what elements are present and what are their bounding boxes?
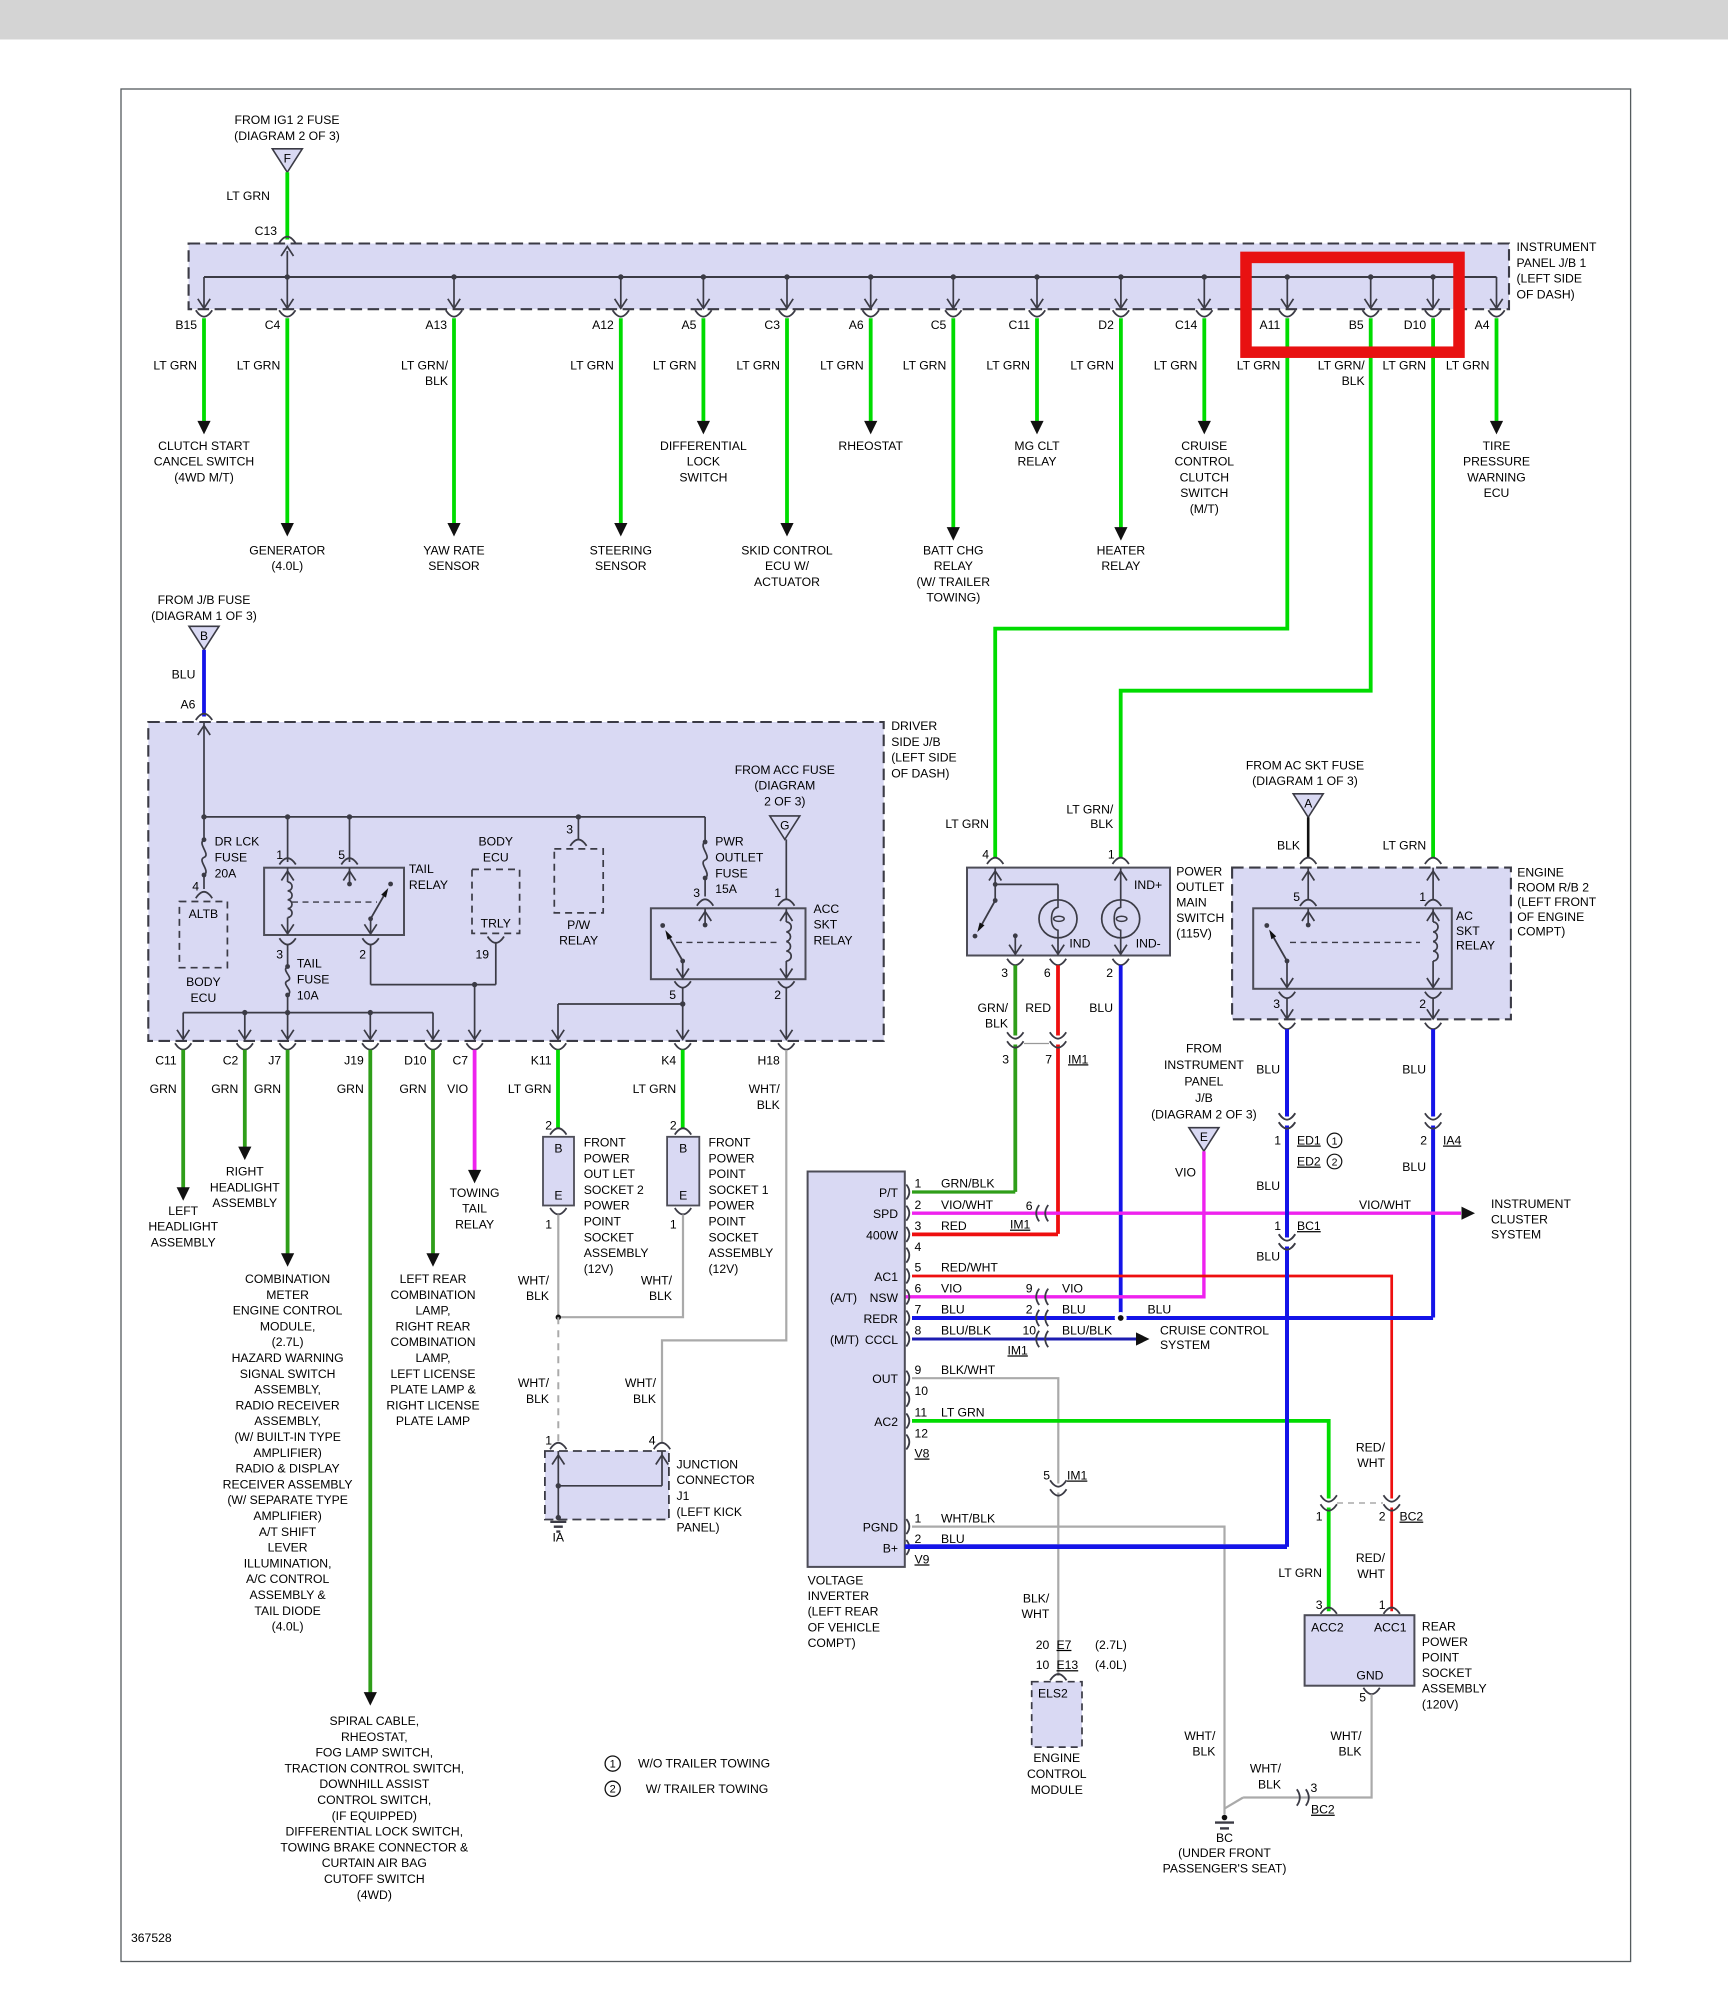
connector arc J1 pin 4 xyxy=(654,1443,670,1449)
svg-text:ASSEMBLY: ASSEMBLY xyxy=(1422,1682,1487,1696)
svg-text:DIFFERENTIAL LOCK SWITCH,: DIFFERENTIAL LOCK SWITCH, xyxy=(285,1825,463,1839)
svg-text:1: 1 xyxy=(1316,1510,1323,1524)
inverter pin arcs PGND B+ xyxy=(906,1519,909,1534)
svg-text:6: 6 xyxy=(915,1282,922,1296)
svg-text:FUSE: FUSE xyxy=(297,973,330,987)
J/B bus junction dots xyxy=(201,814,206,819)
svg-text:B: B xyxy=(679,1141,687,1155)
svg-text:IM1: IM1 xyxy=(1068,1052,1089,1066)
svg-text:D10: D10 xyxy=(404,1054,427,1068)
svg-text:MODULE,: MODULE, xyxy=(260,1319,316,1333)
svg-text:WHT/: WHT/ xyxy=(749,1082,781,1096)
svg-text:(LEFT KICK: (LEFT KICK xyxy=(677,1505,742,1519)
svg-text:BC1: BC1 xyxy=(1297,1219,1321,1233)
svg-text:W/ TRAILER TOWING: W/ TRAILER TOWING xyxy=(646,1782,769,1796)
svg-text:BODY: BODY xyxy=(186,975,221,989)
svg-text:RELAY: RELAY xyxy=(409,878,448,892)
svg-text:IA4: IA4 xyxy=(1443,1134,1462,1148)
svg-text:(LEFT SIDE: (LEFT SIDE xyxy=(1517,272,1582,286)
P/W relay box xyxy=(554,849,603,913)
BC2 link dashed xyxy=(1337,1502,1383,1504)
J/B internal bus wire xyxy=(204,816,705,818)
wire A6 into J/B xyxy=(203,722,205,817)
connector arc tail relay pin 5 xyxy=(349,817,351,862)
tail relay switch xyxy=(388,882,393,887)
svg-text:PGND: PGND xyxy=(863,1521,898,1535)
body ECU TRLY box xyxy=(472,869,520,933)
wire WHT/BLK socket1 to junction xyxy=(560,1215,683,1318)
svg-text:B: B xyxy=(554,1141,562,1155)
svg-text:1: 1 xyxy=(1274,1219,1281,1233)
svg-text:BLK: BLK xyxy=(425,374,448,388)
svg-text:ASSEMBLY &: ASSEMBLY & xyxy=(250,1588,326,1602)
svg-text:SIDE J/B: SIDE J/B xyxy=(891,735,940,749)
J1 internal wires xyxy=(557,1451,559,1518)
svg-text:RELAY: RELAY xyxy=(1456,939,1495,953)
wire VIO pin 6 NSW xyxy=(1036,1289,1039,1305)
ACC SKT relay dashed link xyxy=(676,941,777,943)
connector arc socket 1 top xyxy=(675,1128,691,1134)
svg-text:20: 20 xyxy=(1036,1638,1050,1652)
wire LT GRN to Skid Control xyxy=(785,318,789,524)
svg-text:GENERATOR: GENERATOR xyxy=(249,543,325,557)
svg-text:400W: 400W xyxy=(866,1228,898,1242)
svg-text:(LEFT FRONT: (LEFT FRONT xyxy=(1517,895,1597,909)
wire GRN J7 to combination meter group xyxy=(286,1050,290,1255)
svg-text:METER: METER xyxy=(266,1288,309,1302)
svg-text:1: 1 xyxy=(1108,848,1115,862)
svg-text:15A: 15A xyxy=(715,882,738,896)
svg-text:RECEIVER ASSEMBLY: RECEIVER ASSEMBLY xyxy=(223,1477,353,1491)
svg-text:OUT: OUT xyxy=(872,1372,898,1386)
svg-text:BLU: BLU xyxy=(1402,1063,1426,1077)
svg-text:ALTB: ALTB xyxy=(189,907,219,921)
svg-text:LT GRN/: LT GRN/ xyxy=(1066,803,1114,817)
svg-text:BLK: BLK xyxy=(1090,817,1113,831)
svg-text:LT GRN: LT GRN xyxy=(986,358,1030,372)
svg-text:AC1: AC1 xyxy=(874,1270,898,1284)
svg-text:F: F xyxy=(284,151,291,165)
svg-text:4: 4 xyxy=(649,1434,656,1448)
svg-text:GRN/BLK: GRN/BLK xyxy=(941,1177,995,1191)
svg-text:WHT: WHT xyxy=(1357,1456,1385,1470)
svg-text:C5: C5 xyxy=(931,318,947,332)
svg-text:ENGINE: ENGINE xyxy=(1517,866,1564,880)
svg-text:8: 8 xyxy=(915,1324,922,1338)
svg-text:RELAY: RELAY xyxy=(559,934,598,948)
svg-text:MODULE: MODULE xyxy=(1031,1783,1083,1797)
svg-text:LT GRN: LT GRN xyxy=(237,358,281,372)
svg-text:RIGHT: RIGHT xyxy=(226,1165,264,1179)
svg-text:NSW: NSW xyxy=(870,1291,899,1305)
svg-text:A12: A12 xyxy=(592,318,614,332)
svg-text:PWR: PWR xyxy=(715,835,744,849)
svg-text:MG CLT: MG CLT xyxy=(1014,439,1060,453)
wire GRN/BLK pin 1 P/T xyxy=(912,1190,1015,1193)
connector arc socket 1 bottom xyxy=(675,1208,691,1214)
svg-text:1: 1 xyxy=(774,886,781,900)
svg-text:LT GRN: LT GRN xyxy=(1278,1566,1322,1580)
rear power point socket box xyxy=(1305,1615,1415,1686)
svg-text:GRN: GRN xyxy=(150,1082,177,1096)
svg-text:367528: 367528 xyxy=(131,1931,172,1945)
svg-text:3: 3 xyxy=(1001,966,1008,980)
AC SKT relay switch xyxy=(1264,923,1269,928)
wire WHT/BLK GND to BC ground xyxy=(1243,1694,1372,1797)
svg-text:(M/T): (M/T) xyxy=(830,1333,859,1347)
svg-text:FROM: FROM xyxy=(1186,1041,1222,1055)
svg-text:A11: A11 xyxy=(1260,318,1281,332)
svg-text:COMBINATION: COMBINATION xyxy=(390,1288,475,1302)
svg-text:POWER: POWER xyxy=(709,1199,755,1213)
svg-text:(12V): (12V) xyxy=(709,1262,739,1276)
connector arc RB2 pin top xyxy=(1300,858,1316,864)
svg-text:ED1: ED1 xyxy=(1297,1134,1321,1148)
wire RED from pin 6 xyxy=(1056,965,1060,1034)
svg-text:SKT: SKT xyxy=(1456,924,1480,938)
svg-text:POINT: POINT xyxy=(1422,1651,1460,1665)
switch arm xyxy=(982,901,995,924)
svg-text:(4WD): (4WD) xyxy=(357,1888,392,1902)
svg-text:ASSEMBLY: ASSEMBLY xyxy=(151,1236,216,1250)
wire LT GRN/BLK B5 to power outlet main switch pin 1 xyxy=(1121,318,1371,857)
svg-text:RED/: RED/ xyxy=(1356,1440,1386,1454)
svg-text:CLUTCH: CLUTCH xyxy=(1180,470,1229,484)
svg-text:ASSEMBLY: ASSEMBLY xyxy=(212,1196,277,1210)
connector arcs rear socket top xyxy=(1321,1608,1337,1614)
svg-text:BLK/: BLK/ xyxy=(1023,1591,1050,1605)
tail relay dashed link xyxy=(292,901,377,903)
connector arc ACC relay pin 1 xyxy=(778,899,794,905)
svg-text:HEATER: HEATER xyxy=(1097,543,1146,557)
svg-text:(115V): (115V) xyxy=(1176,926,1212,940)
svg-text:D10: D10 xyxy=(1404,318,1427,332)
svg-text:RHEOSTAT: RHEOSTAT xyxy=(838,439,903,453)
svg-text:ELS2: ELS2 xyxy=(1038,1686,1068,1700)
ELS2 box xyxy=(1032,1682,1082,1747)
svg-text:SKT: SKT xyxy=(814,918,838,932)
bus wire horizontal xyxy=(204,276,1497,278)
lamp IND- column xyxy=(1120,868,1122,900)
svg-text:TRACTION CONTROL SWITCH,: TRACTION CONTROL SWITCH, xyxy=(284,1761,464,1775)
inline connector IM1 red xyxy=(1056,1035,1060,1234)
svg-text:RELAY: RELAY xyxy=(934,559,973,573)
svg-text:E: E xyxy=(679,1189,687,1203)
svg-text:CCCL: CCCL xyxy=(865,1333,898,1347)
svg-text:POWER: POWER xyxy=(709,1151,755,1165)
svg-text:P/W: P/W xyxy=(567,918,591,932)
svg-text:BLK: BLK xyxy=(1342,374,1365,388)
svg-text:J7: J7 xyxy=(268,1054,281,1068)
svg-text:LAMP,: LAMP, xyxy=(415,1304,450,1318)
svg-text:3: 3 xyxy=(276,948,283,962)
svg-text:(DIAGRAM 2 OF 3): (DIAGRAM 2 OF 3) xyxy=(234,129,340,143)
svg-text:PLATE LAMP: PLATE LAMP xyxy=(396,1414,470,1428)
svg-text:INSTRUMENT: INSTRUMENT xyxy=(1517,240,1597,254)
svg-text:11: 11 xyxy=(915,1406,928,1420)
svg-text:FRONT: FRONT xyxy=(709,1136,752,1150)
svg-text:CONTROL: CONTROL xyxy=(1027,1767,1087,1781)
svg-text:10: 10 xyxy=(1022,1324,1036,1338)
svg-text:(4.0L): (4.0L) xyxy=(271,559,303,573)
svg-text:2: 2 xyxy=(670,1118,677,1132)
arrow to cruise control system xyxy=(1136,1332,1150,1345)
svg-text:J19: J19 xyxy=(344,1054,364,1068)
inline connector BC1 redraw xyxy=(1285,1238,1290,1247)
connector arc TRLY pin 19 xyxy=(488,937,504,943)
svg-text:LT GRN: LT GRN xyxy=(226,189,270,203)
svg-text:2: 2 xyxy=(1420,1134,1427,1148)
wire BLU pin 7 REDR xyxy=(912,1316,1433,1320)
svg-text:1: 1 xyxy=(915,1177,922,1191)
svg-text:COMPT): COMPT) xyxy=(808,1636,856,1650)
connector arcs AC SKT relay bottom xyxy=(1279,992,1295,998)
svg-text:AMPLIFIER): AMPLIFIER) xyxy=(253,1446,321,1460)
svg-text:POINT: POINT xyxy=(709,1215,747,1229)
svg-text:(12V): (12V) xyxy=(584,1262,614,1276)
bus connector cups xyxy=(196,310,212,316)
svg-text:IND+: IND+ xyxy=(1134,878,1162,892)
inverter pin arcs 1-12 xyxy=(906,1185,909,1200)
svg-text:POWER: POWER xyxy=(1422,1635,1468,1649)
svg-text:GND: GND xyxy=(1356,1668,1383,1682)
svg-text:TAIL: TAIL xyxy=(297,957,322,971)
svg-text:OUTLET: OUTLET xyxy=(1176,880,1225,894)
connector arcs AC SKT relay top xyxy=(1300,900,1316,906)
bus junction dots xyxy=(285,274,290,279)
svg-text:SOCKET 2: SOCKET 2 xyxy=(584,1183,644,1197)
svg-text:OUTLET: OUTLET xyxy=(715,851,764,865)
connector arc ACC relay pin 3 xyxy=(697,899,713,905)
svg-text:2: 2 xyxy=(1379,1510,1386,1524)
svg-text:WHT: WHT xyxy=(1357,1567,1385,1581)
RB2 bottom exit wires xyxy=(1286,998,1288,1017)
svg-text:RELAY: RELAY xyxy=(814,934,853,948)
svg-text:BLU: BLU xyxy=(1256,1063,1280,1077)
svg-text:SOCKET: SOCKET xyxy=(1422,1666,1473,1680)
svg-text:J/B: J/B xyxy=(1195,1091,1213,1105)
svg-text:4: 4 xyxy=(915,1240,922,1254)
wire WHT/BLK pin PGND xyxy=(912,1527,1225,1815)
svg-text:E: E xyxy=(554,1189,562,1203)
svg-text:J1: J1 xyxy=(677,1489,690,1503)
svg-text:REAR: REAR xyxy=(1422,1619,1456,1633)
svg-text:HEADLIGHT: HEADLIGHT xyxy=(210,1180,280,1194)
svg-text:BATT CHG: BATT CHG xyxy=(923,543,984,557)
front power outlet socket 2 box xyxy=(543,1137,574,1206)
svg-text:SPIRAL CABLE,: SPIRAL CABLE, xyxy=(329,1714,419,1728)
svg-text:FROM ACC FUSE: FROM ACC FUSE xyxy=(735,763,835,777)
wire RED/WHT pin 5 AC1 xyxy=(912,1276,1392,1611)
wire LT GRN to Tire xyxy=(1495,318,1499,422)
svg-text:SYSTEM: SYSTEM xyxy=(1491,1227,1541,1241)
connector arc C13 xyxy=(279,237,295,243)
svg-text:10: 10 xyxy=(1036,1658,1050,1672)
svg-text:E7: E7 xyxy=(1057,1638,1072,1652)
svg-text:BLU: BLU xyxy=(1062,1303,1086,1317)
svg-text:5: 5 xyxy=(1043,1469,1050,1483)
svg-text:E13: E13 xyxy=(1057,1658,1079,1672)
connector arc P/W pin 3 xyxy=(570,840,586,846)
svg-text:DIFFERENTIAL: DIFFERENTIAL xyxy=(660,439,747,453)
P/W relay pin 3 wire xyxy=(577,817,579,839)
svg-text:2: 2 xyxy=(610,1784,616,1796)
svg-text:FROM AC SKT FUSE: FROM AC SKT FUSE xyxy=(1246,758,1364,772)
svg-text:ACC: ACC xyxy=(814,902,840,916)
svg-text:ENGINE CONTROL: ENGINE CONTROL xyxy=(233,1304,343,1318)
svg-text:STEERING: STEERING xyxy=(590,543,652,557)
svg-text:FROM J/B FUSE: FROM J/B FUSE xyxy=(158,593,251,607)
svg-text:LT GRN: LT GRN xyxy=(945,817,989,831)
svg-text:AC2: AC2 xyxy=(874,1415,898,1429)
svg-text:CRUISE CONTROL: CRUISE CONTROL xyxy=(1160,1324,1269,1338)
svg-text:6: 6 xyxy=(1026,1199,1033,1213)
svg-text:VIO: VIO xyxy=(1062,1282,1083,1296)
power outlet main switch box xyxy=(967,868,1170,956)
svg-text:PANEL J/B 1: PANEL J/B 1 xyxy=(1517,256,1587,270)
svg-text:BLU: BLU xyxy=(941,1303,965,1317)
voltage inverter box xyxy=(808,1172,905,1567)
svg-text:A4: A4 xyxy=(1475,318,1490,332)
switch pin 3 stub xyxy=(1013,933,1018,938)
svg-text:(M/T): (M/T) xyxy=(1190,502,1219,516)
svg-text:TAIL DIODE: TAIL DIODE xyxy=(254,1604,320,1618)
wire LT GRN to Yaw Rate xyxy=(452,318,456,524)
tail relay box xyxy=(264,868,404,935)
bottom bus drop arrows xyxy=(182,1013,184,1039)
svg-text:5: 5 xyxy=(669,988,676,1002)
wire LT GRN D10 to engine room R/B 2 pin 1 xyxy=(1431,318,1435,857)
svg-text:(LEFT REAR: (LEFT REAR xyxy=(808,1605,879,1619)
svg-text:POINT: POINT xyxy=(709,1167,747,1181)
svg-text:BLK/WHT: BLK/WHT xyxy=(941,1363,996,1377)
svg-text:1: 1 xyxy=(1274,1134,1281,1148)
ground IA xyxy=(550,1521,566,1523)
svg-text:V8: V8 xyxy=(915,1447,930,1461)
svg-text:VIO: VIO xyxy=(1175,1166,1196,1180)
wire LT GRN to Clutch Start xyxy=(202,318,206,422)
svg-text:(DIAGRAM: (DIAGRAM xyxy=(754,779,815,793)
svg-text:OUT LET: OUT LET xyxy=(584,1167,636,1181)
svg-text:LEVER: LEVER xyxy=(268,1541,308,1555)
svg-text:W/O TRAILER TOWING: W/O TRAILER TOWING xyxy=(638,1757,770,1771)
svg-text:FROM IG1 2 FUSE: FROM IG1 2 FUSE xyxy=(235,113,340,127)
svg-text:SWITCH: SWITCH xyxy=(1180,486,1228,500)
svg-text:6: 6 xyxy=(1044,966,1051,980)
connector arc A6 xyxy=(196,714,212,720)
svg-text:1: 1 xyxy=(1419,890,1426,904)
svg-text:12: 12 xyxy=(915,1427,929,1441)
svg-text:LT GRN: LT GRN xyxy=(1237,358,1281,372)
svg-text:(2.7L): (2.7L) xyxy=(1095,1638,1127,1652)
svg-text:A5: A5 xyxy=(681,318,696,332)
svg-text:A13: A13 xyxy=(425,318,447,332)
svg-text:A: A xyxy=(1304,796,1312,810)
svg-text:LEFT: LEFT xyxy=(168,1204,198,1218)
legend circle 1 xyxy=(605,1756,620,1771)
svg-text:GRN/: GRN/ xyxy=(978,1001,1009,1015)
svg-text:REDR: REDR xyxy=(863,1312,898,1326)
svg-text:CRUISE: CRUISE xyxy=(1181,439,1227,453)
BC2 dashed pair on RED/WHT xyxy=(1389,1499,1394,1508)
svg-text:(120V): (120V) xyxy=(1422,1697,1459,1711)
svg-text:BC2: BC2 xyxy=(1400,1510,1424,1524)
wire LT GRN K11 to front power outlet socket 2 xyxy=(556,1050,560,1129)
svg-text:ED2: ED2 xyxy=(1297,1155,1321,1169)
svg-text:H18: H18 xyxy=(757,1054,780,1068)
svg-text:FUSE: FUSE xyxy=(715,866,748,880)
wire LT GRN K4 to front power point socket 1 xyxy=(681,1050,685,1129)
RB2 pin 5 wire xyxy=(1307,868,1309,899)
svg-text:DRIVER: DRIVER xyxy=(891,719,937,733)
svg-text:VIO/WHT: VIO/WHT xyxy=(941,1198,994,1212)
wire WHT/BLK socket2 down xyxy=(557,1215,559,1318)
svg-text:AMPLIFIER): AMPLIFIER) xyxy=(253,1509,321,1523)
inline connector ED1 on left BLU xyxy=(1285,1117,1290,1126)
svg-text:LT GRN: LT GRN xyxy=(570,358,614,372)
svg-text:BLK: BLK xyxy=(526,1289,549,1303)
svg-text:CLUSTER: CLUSTER xyxy=(1491,1212,1548,1226)
svg-text:RELAY: RELAY xyxy=(455,1218,494,1232)
svg-text:GRN: GRN xyxy=(211,1082,238,1096)
svg-text:(W/ TRAILER: (W/ TRAILER xyxy=(917,575,991,589)
ACC SKT relay box xyxy=(651,908,806,979)
svg-text:2: 2 xyxy=(545,1118,552,1132)
svg-text:YAW RATE: YAW RATE xyxy=(423,543,484,557)
svg-text:ECU: ECU xyxy=(191,991,217,1005)
svg-text:3: 3 xyxy=(1311,1781,1318,1795)
ACC SKT relay pin 3 stub xyxy=(704,908,706,925)
svg-text:HAZARD WARNING: HAZARD WARNING xyxy=(232,1351,344,1365)
svg-text:BLU/BLK: BLU/BLK xyxy=(1062,1324,1112,1338)
wire LT GRN to Mg Clt xyxy=(1035,318,1039,422)
svg-text:5: 5 xyxy=(915,1261,922,1275)
wire GRN J19 to spiral cable group xyxy=(368,1050,372,1694)
svg-text:1: 1 xyxy=(276,848,283,862)
svg-text:ROOM R/B 2: ROOM R/B 2 xyxy=(1517,880,1589,894)
svg-text:RHEOSTAT,: RHEOSTAT, xyxy=(341,1730,408,1744)
inline connector IM1 green xyxy=(1013,1035,1017,1192)
svg-text:BLK: BLK xyxy=(526,1392,549,1406)
svg-text:2: 2 xyxy=(915,1532,922,1546)
svg-text:RIGHT REAR: RIGHT REAR xyxy=(396,1319,471,1333)
svg-text:WHT/BLK: WHT/BLK xyxy=(941,1511,995,1525)
svg-text:LT GRN: LT GRN xyxy=(633,1082,677,1096)
wire BLU relay pin 3 down xyxy=(1285,1029,1289,1546)
svg-text:AC: AC xyxy=(1456,909,1473,923)
svg-text:SPD: SPD xyxy=(873,1207,898,1221)
fuse TAIL FUSE 10A xyxy=(287,945,289,967)
svg-text:POINT: POINT xyxy=(584,1215,622,1229)
connector arc ACC relay pin 2 xyxy=(778,981,794,987)
connector arc ACC relay pin 5 xyxy=(675,981,691,987)
svg-text:2: 2 xyxy=(359,948,366,962)
wire BLU relay pin 2 down xyxy=(1431,1029,1435,1317)
svg-text:WHT/: WHT/ xyxy=(1184,1729,1216,1743)
svg-text:POWER: POWER xyxy=(584,1199,630,1213)
wire WHT/BLK dashed to J1 pin 1 xyxy=(557,1317,559,1443)
svg-text:(DIAGRAM 1 OF 3): (DIAGRAM 1 OF 3) xyxy=(151,609,257,623)
svg-text:BLK: BLK xyxy=(1192,1745,1215,1759)
svg-text:LT GRN: LT GRN xyxy=(1383,838,1427,852)
J7 drop arrow xyxy=(287,1013,289,1039)
svg-text:SENSOR: SENSOR xyxy=(595,559,647,573)
svg-text:COMBINATION: COMBINATION xyxy=(390,1335,475,1349)
tail relay coil xyxy=(287,868,289,882)
connector link line xyxy=(1024,1043,1049,1045)
wire BLU/BLK pin 8 CCCL xyxy=(912,1338,1136,1341)
svg-text:D2: D2 xyxy=(1098,318,1114,332)
